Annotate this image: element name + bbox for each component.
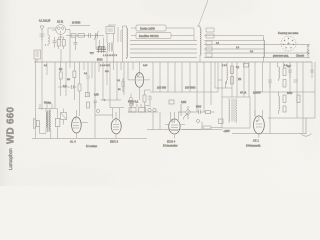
tube V1 circle xyxy=(56,25,66,35)
svg-text:Bandfilter 468 kHz: Bandfilter 468 kHz xyxy=(139,35,159,38)
IF transformer T1 label box xyxy=(106,27,115,34)
svg-text:Feldsp.: Feldsp. xyxy=(44,103,52,105)
resistor R4 xyxy=(73,71,76,78)
bus line 5 xyxy=(130,57,270,59)
coil wires xyxy=(204,36,264,63)
svg-text:ECH 4: ECH 4 xyxy=(167,140,176,144)
dial cord diagonal xyxy=(198,0,208,27)
T1 coil block xyxy=(107,43,108,52)
trimmer cap xyxy=(94,31,99,40)
V2 bottom wire xyxy=(138,87,140,100)
feedback line y87 xyxy=(58,86,71,88)
right vertical wires xyxy=(215,62,249,97)
svg-text:20 5000: 20 5000 xyxy=(72,23,81,25)
svg-text:0,1: 0,1 xyxy=(59,68,63,71)
svg-text:EBC 3: EBC 3 xyxy=(110,140,119,144)
capacitor C5 xyxy=(148,95,152,107)
line under cluster xyxy=(147,129,222,131)
resistor R1b under V1 xyxy=(62,40,65,47)
choke left a xyxy=(226,68,228,88)
small box on wire x220 xyxy=(219,119,224,124)
vertical wire x60 xyxy=(60,62,62,72)
svg-text:0,5M: 0,5M xyxy=(181,102,186,104)
choke coil right a xyxy=(278,67,280,81)
V5 side stubs xyxy=(165,124,185,126)
svg-text:1 2 3 4 5 6 7 8: 1 2 3 4 5 6 7 8 xyxy=(103,55,118,57)
vertical wire x66 xyxy=(65,62,67,96)
core lines xyxy=(232,99,234,122)
tube socket dashed circle xyxy=(281,36,296,51)
osc coil wires xyxy=(197,26,200,62)
transformer wires xyxy=(40,109,51,139)
right section wires 2 xyxy=(255,62,315,134)
V2 side wires xyxy=(128,79,150,81)
vertical wire x95 xyxy=(94,62,96,138)
note line right xyxy=(270,57,310,59)
resistor with dot right xyxy=(307,45,309,47)
power transformer frame xyxy=(222,97,250,128)
wire x74 xyxy=(73,62,75,100)
transformer core xyxy=(48,110,49,132)
wire R1 down xyxy=(60,49,62,62)
top box label 1 xyxy=(136,25,166,31)
V3 internals xyxy=(73,118,79,129)
bus line 2 xyxy=(130,44,310,46)
coil L1 antenna xyxy=(48,33,50,46)
svg-text:~220V: ~220V xyxy=(223,131,230,133)
svg-text:AZ 1: AZ 1 xyxy=(253,139,259,143)
horizontal y92 right xyxy=(255,91,315,93)
vertical wire x103 xyxy=(102,62,104,100)
mid tube V2 oval xyxy=(135,73,144,88)
V2 internals xyxy=(137,73,143,80)
AVC arrow xyxy=(101,99,106,101)
bus line 4 xyxy=(130,52,310,54)
V3 top wire xyxy=(75,110,77,117)
V3 side stub xyxy=(81,122,88,124)
vertical wires mid-right xyxy=(153,62,218,112)
vertical wire x55 xyxy=(54,62,56,108)
detector resistor xyxy=(206,111,211,114)
bottom-left long rail xyxy=(32,138,107,140)
svg-text:E-Lautspr.: E-Lautspr. xyxy=(86,145,98,148)
cluster components under V2 xyxy=(143,95,146,102)
trimmer boxes right of coil xyxy=(206,28,214,32)
mini coil cluster x122 xyxy=(121,78,125,92)
svg-text:0,5: 0,5 xyxy=(63,85,67,88)
svg-text:E-Netzanschl.: E-Netzanschl. xyxy=(246,145,261,148)
top rail of output stage xyxy=(38,104,57,109)
tube V5 oval xyxy=(169,119,180,134)
tuning gang coil column 1 xyxy=(127,26,128,59)
svg-text:2x300V: 2x300V xyxy=(253,93,261,95)
vertical wires center x117-133 xyxy=(110,62,133,108)
V4 feed line xyxy=(110,107,124,109)
svg-text:Chassis: Chassis xyxy=(296,55,305,57)
resistor R3 xyxy=(59,72,62,79)
svg-text:100 5000: 100 5000 xyxy=(185,87,196,90)
V4 bottom wire xyxy=(115,134,117,139)
power tube V3 oval xyxy=(72,117,82,133)
detector caps xyxy=(190,110,205,115)
cluster between V4 and V5 xyxy=(128,111,158,113)
svg-text:1M: 1M xyxy=(238,79,241,81)
vertical wire x70 xyxy=(69,62,71,68)
bottom mid rail xyxy=(107,138,147,140)
T1 coil block b xyxy=(112,43,113,52)
svg-text:5000: 5000 xyxy=(196,107,202,109)
resistor R2 horiz xyxy=(78,34,85,37)
svg-text:E-Umschalter: E-Umschalter xyxy=(163,145,178,148)
wire right of V5 xyxy=(182,122,202,130)
wire box to bus xyxy=(36,59,38,62)
V2 top wire xyxy=(138,62,140,73)
V5 wires xyxy=(171,112,179,139)
verticals to rail xyxy=(96,38,104,50)
svg-text:5000: 5000 xyxy=(97,59,103,62)
wire gang1 top xyxy=(123,26,127,62)
wire R3 down xyxy=(60,79,62,96)
bottom right rail xyxy=(232,133,306,135)
tube V4 oval xyxy=(111,119,121,134)
svg-text:Drehko 2x500: Drehko 2x500 xyxy=(140,28,156,31)
resistor on x88 xyxy=(87,102,90,108)
svg-text:100 300: 100 300 xyxy=(157,87,167,90)
AVC line y100 xyxy=(103,99,121,101)
field coil box lower xyxy=(55,119,60,127)
V6 internals xyxy=(256,117,262,127)
V5 internals xyxy=(171,120,178,131)
caps right xyxy=(218,62,314,88)
svg-text:Fassung von unten: Fassung von unten xyxy=(278,32,299,35)
lamp near x198 xyxy=(197,120,200,123)
wire V1 bottom xyxy=(60,34,62,40)
socket pins xyxy=(283,38,294,49)
output transformer coil a xyxy=(45,112,48,127)
svg-text:5000: 5000 xyxy=(287,93,293,95)
vertical wire x79 + resistor R5 xyxy=(79,62,81,84)
paper background xyxy=(0,0,320,186)
left rail down xyxy=(35,59,37,139)
antenna terminal xyxy=(40,26,44,30)
resistors right section xyxy=(231,66,234,74)
svg-text:50000 0,1: 50000 0,1 xyxy=(128,102,139,104)
wires T1 xyxy=(107,25,121,62)
svg-text:4V 1A: 4V 1A xyxy=(240,92,247,95)
coupling line y35.5 xyxy=(66,35,104,37)
svg-text:8µF: 8µF xyxy=(287,66,292,68)
bus line 1b xyxy=(204,40,264,42)
V4 internals xyxy=(113,120,119,130)
small cap below xyxy=(74,37,78,50)
transformer primary coil xyxy=(229,99,230,123)
vertical wire x88 xyxy=(87,62,89,75)
small IF pot circles xyxy=(129,97,132,100)
RF coil column x263 xyxy=(264,38,265,58)
oscillator coil column x200 xyxy=(200,26,201,57)
V4 wires top xyxy=(113,108,120,119)
field coil box upper xyxy=(61,113,67,120)
svg-text:2M: 2M xyxy=(67,79,70,81)
resistor horizontal bottom xyxy=(203,126,211,129)
box leads xyxy=(131,28,194,36)
V3 bottom wire xyxy=(75,133,77,139)
resistor R2a horiz xyxy=(71,34,76,37)
svg-text:Lumophon: Lumophon xyxy=(8,148,13,170)
capacitor C2 xyxy=(89,33,91,38)
node dot xyxy=(60,38,61,39)
V1 internal electrodes xyxy=(58,27,61,30)
extra faint verticals xyxy=(47,62,107,85)
main horizontal rail y62 xyxy=(34,61,312,63)
top box label 2 xyxy=(136,33,171,39)
left small cap pair xyxy=(53,37,57,48)
wire antenna down xyxy=(41,30,43,62)
mains arrow xyxy=(301,118,312,136)
volume pot cluster xyxy=(169,100,174,104)
svg-text:AL 4: AL 4 xyxy=(70,140,76,144)
socket center mark xyxy=(287,42,290,45)
marks near x95 xyxy=(94,101,98,109)
box at 86 xyxy=(85,92,89,97)
wire L1 top xyxy=(48,28,56,33)
top coupling line xyxy=(70,25,90,27)
bus line 3 xyxy=(130,48,264,50)
choke coil right b xyxy=(279,92,280,114)
vertical wire x42 xyxy=(41,62,43,110)
lamp circle xyxy=(96,109,99,112)
horizontal y118 right xyxy=(268,117,315,119)
svg-text:gemessen geg.: gemessen geg. xyxy=(273,55,289,57)
horizontal y88 segment xyxy=(215,87,232,89)
T1 core xyxy=(110,43,112,52)
svg-text:WD 660: WD 660 xyxy=(6,107,17,144)
wire V1 left xyxy=(52,29,56,31)
capacitor C1 xyxy=(40,34,45,40)
svg-text:0,05: 0,05 xyxy=(94,95,99,97)
svg-text:2 4 6 8 10: 2 4 6 8 10 xyxy=(100,65,111,67)
mid horizontal line y92 xyxy=(150,91,218,93)
switch contact cluster (dark) xyxy=(90,47,107,54)
speaker xyxy=(34,118,40,129)
capacitor C3 xyxy=(86,76,90,96)
V6 wires xyxy=(255,110,263,138)
bus line 1 xyxy=(130,40,197,42)
svg-text:AZ 11: AZ 11 xyxy=(57,21,64,24)
rectifier tube V6 oval xyxy=(254,116,265,134)
switch box Wellenschalter xyxy=(34,50,41,59)
transformer secondary xyxy=(236,99,237,123)
svg-text:0,1 2x0,25: 0,1 2x0,25 xyxy=(39,20,51,23)
wire V1 right xyxy=(66,30,70,63)
output transformer coil b xyxy=(50,110,51,131)
resistor R1 under V1 xyxy=(57,40,60,47)
box lead drop xyxy=(193,28,195,41)
cap on y87 xyxy=(72,85,77,89)
